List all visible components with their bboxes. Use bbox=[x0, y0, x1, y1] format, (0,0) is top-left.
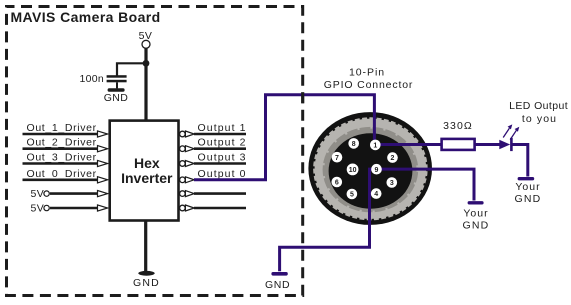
svg-text:GND: GND bbox=[463, 220, 490, 232]
output row 6 (unlabeled) bbox=[180, 205, 246, 211]
input 5V pin (row 5) bbox=[31, 188, 108, 200]
resistor 330 ohm bbox=[442, 120, 475, 150]
svg-text:Output 1: Output 1 bbox=[198, 122, 247, 134]
svg-text:10: 10 bbox=[349, 167, 357, 174]
MAVIS camera board boundary (dashed outline) bbox=[7, 7, 303, 296]
dashed border segment over wire crossing bbox=[301, 92, 304, 103]
svg-text:GND: GND bbox=[515, 193, 542, 205]
output Output 2 bbox=[180, 137, 247, 152]
output Output 1 (bubble, arrow, wire, label) bbox=[180, 122, 247, 137]
svg-text:100n: 100n bbox=[80, 73, 105, 85]
svg-text:8: 8 bbox=[352, 141, 356, 148]
output Output 0 (bubble + arrow) bbox=[180, 168, 247, 183]
svg-text:Output 2: Output 2 bbox=[198, 137, 247, 149]
connector pin 2 bbox=[387, 152, 398, 163]
connector pin 4 bbox=[371, 188, 382, 199]
input wire Out_3_Driver bbox=[23, 152, 108, 167]
svg-text:Your: Your bbox=[515, 181, 540, 193]
svg-text:GND: GND bbox=[104, 92, 129, 104]
capacitor C 100n bbox=[107, 75, 127, 88]
wire inverter to ground bbox=[144, 221, 147, 272]
op: hex inverter U1 body bbox=[110, 121, 179, 221]
wire pin 1 to resistor bbox=[376, 143, 441, 146]
svg-text:6: 6 bbox=[335, 180, 339, 187]
ground (your GND, right of LED) bbox=[515, 177, 542, 205]
connector pin 1 bbox=[370, 140, 381, 151]
svg-text:Your: Your bbox=[463, 208, 488, 220]
connector pin 10 bbox=[347, 164, 359, 176]
svg-text:Output 0: Output 0 bbox=[198, 168, 247, 180]
svg-text:Out_0_Driver: Out_0_Driver bbox=[27, 168, 97, 180]
wire LED to your GND bbox=[511, 145, 527, 177]
ground (board GND, purple symbol) bbox=[265, 272, 290, 291]
svg-text:2: 2 bbox=[391, 155, 395, 162]
connector pin 8 bbox=[348, 138, 359, 149]
svg-text:1: 1 bbox=[373, 143, 377, 150]
wire 5V rail down to inverter bbox=[144, 48, 147, 120]
output Output 3 bbox=[180, 152, 247, 167]
svg-text:MAVIS Camera Board: MAVIS Camera Board bbox=[11, 9, 161, 25]
ground (your GND, below connector) bbox=[463, 201, 490, 232]
svg-text:5V: 5V bbox=[31, 188, 45, 200]
input wire Out_0_Driver bbox=[23, 168, 108, 183]
input wire Out_2_Driver bbox=[23, 137, 108, 152]
input wire Out_1_Driver bbox=[23, 122, 108, 137]
svg-text:to you: to you bbox=[522, 113, 557, 125]
wire junction to capacitor bbox=[117, 63, 146, 75]
wire pin9 stub + down to board GND bbox=[280, 169, 377, 271]
svg-text:GPIO Connector: GPIO Connector bbox=[324, 79, 414, 91]
svg-text:5: 5 bbox=[350, 192, 354, 199]
svg-text:10-Pin: 10-Pin bbox=[349, 67, 385, 79]
svg-text:GND: GND bbox=[133, 277, 160, 289]
svg-text:GND: GND bbox=[265, 279, 290, 291]
svg-text:Output 3: Output 3 bbox=[198, 152, 247, 164]
wire resistor to LED bbox=[475, 143, 500, 146]
connector pin 6 bbox=[332, 177, 343, 188]
emission arrows bbox=[503, 128, 509, 137]
svg-text:3: 3 bbox=[390, 180, 394, 187]
5V supply symbol bbox=[139, 30, 153, 49]
net Output 0 wire to connector pin 1 bbox=[194, 95, 374, 180]
wire pin9 to your-GND (right) bbox=[377, 169, 474, 200]
svg-text:7: 7 bbox=[335, 155, 339, 162]
svg-text:Out_2_Driver: Out_2_Driver bbox=[27, 137, 97, 149]
svg-text:330Ω: 330Ω bbox=[443, 120, 473, 132]
svg-text:9: 9 bbox=[375, 167, 379, 174]
connector pin 5 bbox=[347, 189, 358, 200]
connector label bbox=[324, 67, 414, 91]
10-pin GPIO connector J1 (body) bbox=[308, 112, 432, 225]
LED label bbox=[509, 100, 568, 125]
ground (capacitor) bbox=[104, 88, 129, 104]
junction bbox=[143, 60, 150, 67]
svg-text:5V: 5V bbox=[31, 202, 45, 214]
svg-text:Inverter: Inverter bbox=[121, 170, 173, 186]
connector pin 3 bbox=[387, 177, 398, 188]
output row 5 (unlabeled) bbox=[180, 191, 246, 197]
svg-text:4: 4 bbox=[374, 191, 378, 198]
svg-text:Out_3_Driver: Out_3_Driver bbox=[27, 152, 97, 164]
connector pin 7 bbox=[332, 152, 343, 163]
svg-text:Hex: Hex bbox=[134, 155, 160, 171]
svg-text:Out_1_Driver: Out_1_Driver bbox=[27, 122, 97, 134]
svg-text:LED Output: LED Output bbox=[509, 100, 568, 112]
LED D1 bbox=[499, 124, 519, 151]
connector pin 9 bbox=[371, 164, 382, 175]
input 5V pin (row 6) bbox=[31, 202, 108, 214]
ground (inverter) bbox=[133, 271, 160, 289]
